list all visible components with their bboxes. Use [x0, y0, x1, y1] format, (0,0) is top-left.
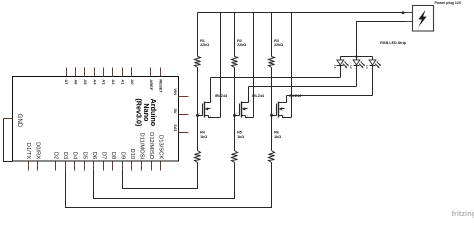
wire GND bus top	[198, 12, 406, 14]
pin D8	[110, 152, 116, 171]
svg-text:3V3: 3V3	[173, 124, 178, 132]
LED L1	[333, 57, 349, 78]
node gate Q3	[270, 114, 273, 117]
svg-text:22kΩ: 22kΩ	[237, 43, 246, 47]
power plug J1 12V	[413, 6, 434, 32]
wire gate to R5	[234, 116, 236, 151]
svg-text:R2: R2	[237, 39, 242, 43]
resistor R3	[269, 39, 284, 68]
wire D6 to R5	[94, 163, 235, 199]
wire plug pin2	[406, 21, 414, 23]
watermark fritzing	[452, 209, 474, 218]
wire R3 top	[271, 13, 273, 57]
svg-text:D12/MISO: D12/MISO	[148, 132, 154, 160]
pin A1	[120, 68, 125, 86]
pin A0	[130, 68, 135, 86]
wire Q1 source to bus	[220, 13, 222, 118]
wire LED1 cathode to Q1 drain	[211, 77, 341, 79]
wire plug pin1	[406, 12, 414, 14]
pin A4	[92, 68, 97, 86]
wire Q3 drain riser	[286, 96, 288, 103]
svg-text:RGB-LED-Strip: RGB-LED-Strip	[380, 41, 407, 45]
wire R1 to gate	[197, 68, 199, 116]
pin D10	[129, 149, 135, 171]
svg-text:D13/SCK: D13/SCK	[158, 135, 164, 159]
svg-text:D11/MOSI: D11/MOSI	[139, 133, 145, 160]
svg-text:R5: R5	[237, 131, 242, 135]
wire D3 to R6	[66, 163, 272, 208]
svg-text:D6: D6	[91, 152, 97, 159]
pin D2	[53, 152, 59, 171]
resistor R1	[195, 39, 210, 68]
wire R1 top	[197, 13, 199, 57]
svg-text:D9: D9	[119, 152, 125, 159]
pin D5	[81, 152, 87, 171]
resistor R6	[269, 131, 282, 163]
svg-text:G: G	[199, 113, 201, 115]
svg-text:D2: D2	[53, 152, 59, 159]
svg-text:D1/TX: D1/TX	[25, 143, 31, 160]
svg-text:R1: R1	[200, 39, 205, 43]
junction bus	[402, 11, 405, 14]
label Power plug 12V	[435, 1, 462, 5]
svg-text:AREF: AREF	[149, 79, 154, 90]
pin VIN	[173, 88, 189, 96]
svg-text:A4: A4	[92, 79, 97, 85]
node gate Q2	[233, 114, 236, 117]
wire R3 to gate	[271, 68, 273, 116]
pin A7	[64, 68, 69, 86]
svg-text:A7: A7	[64, 79, 69, 85]
svg-text:IRLZ44: IRLZ44	[215, 94, 228, 98]
svg-text:D8: D8	[110, 152, 116, 159]
svg-text:A2: A2	[111, 79, 116, 85]
wire R2 to gate	[234, 68, 236, 116]
svg-text:RESET: RESET	[158, 79, 163, 93]
wire D9 to R4	[123, 163, 198, 189]
wire Q2 source to bus	[253, 13, 255, 118]
svg-text:1kΩ: 1kΩ	[274, 135, 281, 139]
resistor R5	[232, 131, 245, 163]
svg-text:1kΩ: 1kΩ	[200, 135, 207, 139]
svg-text:Power plug 12V: Power plug 12V	[435, 1, 462, 5]
pin D11/MOSI	[139, 133, 145, 171]
svg-text:A6: A6	[74, 79, 79, 85]
svg-text:22kΩ: 22kΩ	[274, 43, 283, 47]
svg-text:GND: GND	[16, 114, 22, 128]
svg-text:22kΩ: 22kΩ	[200, 43, 209, 47]
pin D9	[119, 152, 125, 171]
wire LED2 cathode to Q2 drain	[249, 86, 357, 88]
pin D12/MISO	[148, 132, 154, 170]
transistor Q2 IRLZ44	[235, 94, 266, 118]
svg-text:A0: A0	[130, 79, 135, 85]
svg-text:G: G	[236, 113, 238, 115]
pin A5	[83, 68, 88, 86]
svg-text:R3: R3	[274, 39, 279, 43]
svg-text:1kΩ: 1kΩ	[237, 135, 244, 139]
IC U1 Arduino Nano body	[13, 77, 179, 162]
transistor Q1 IRLZ44	[198, 94, 229, 118]
svg-text:R6: R6	[274, 131, 279, 135]
pin A3	[102, 68, 107, 86]
pin AREF	[149, 68, 154, 91]
wire R2 top	[234, 13, 236, 57]
pin D0/RX	[35, 142, 41, 170]
svg-text:D4: D4	[72, 152, 78, 160]
pin GND	[4, 114, 23, 128]
pin D7	[100, 152, 106, 171]
pin RESET	[158, 68, 163, 94]
resistor R4	[195, 131, 208, 163]
svg-text:D5: D5	[81, 152, 87, 159]
wire gate to R4	[197, 116, 199, 151]
svg-text:A3: A3	[102, 79, 107, 85]
wire Q1 drain riser	[210, 78, 212, 103]
label RGB-LED-Strip	[380, 41, 407, 45]
wire GND from U1 to bottom edge	[4, 119, 13, 162]
LED L3	[365, 57, 381, 96]
wire Q3 source to bus	[291, 13, 293, 118]
pin D4	[72, 152, 78, 171]
wire LED anode bus	[341, 56, 373, 58]
pin A2	[111, 68, 116, 86]
pin D13/SCK	[158, 135, 164, 170]
svg-text:D10: D10	[129, 149, 135, 160]
resistor R2	[232, 39, 247, 68]
junction anode bus	[355, 55, 357, 57]
svg-text:(Rev3.0): (Rev3.0)	[135, 98, 144, 127]
pin D3	[62, 152, 68, 171]
wire gate to R6	[271, 116, 273, 151]
pin 5V	[173, 109, 189, 115]
wire Q2 drain riser	[248, 87, 250, 103]
LED L2	[349, 57, 365, 87]
pin A6	[74, 68, 79, 86]
pin D1/TX	[25, 143, 31, 171]
wire LED3 cathode to Q3 drain	[287, 95, 373, 97]
svg-text:D3: D3	[62, 152, 68, 159]
pin 3V3	[173, 124, 189, 132]
svg-text:A5: A5	[83, 79, 88, 85]
svg-text:fritzing: fritzing	[452, 209, 474, 218]
wire 12V riser	[357, 22, 406, 57]
transistor Q3 IRLZ44	[272, 94, 303, 118]
svg-text:G: G	[273, 113, 275, 115]
svg-text:D7: D7	[100, 152, 106, 159]
svg-text:VIN: VIN	[173, 88, 178, 95]
svg-text:5V: 5V	[173, 109, 178, 114]
svg-text:A1: A1	[120, 79, 125, 85]
IC U1 label Arduino Nano (Rev3.0)	[135, 98, 158, 127]
pin D6	[91, 152, 97, 171]
node gate Q1	[196, 114, 199, 117]
svg-text:D0/RX: D0/RX	[35, 142, 41, 159]
